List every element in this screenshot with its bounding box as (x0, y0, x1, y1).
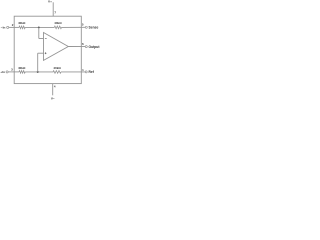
Output label (89, 45, 101, 49)
svg-text:V−: V− (51, 97, 55, 100)
svg-text:40kΩ: 40kΩ (18, 21, 26, 25)
R2 value 40kOhm (54, 21, 62, 25)
svg-text:Ref: Ref (89, 70, 95, 74)
resistor R1 zigzag (19, 26, 25, 29)
V- label (51, 97, 55, 101)
R3 value 40kOhm (18, 66, 26, 70)
R1 value 40kOhm (18, 21, 26, 25)
wire -In circle to resistor R1 (9, 26, 19, 28)
node A junction dot (38, 26, 40, 28)
wire R4 to Ref terminal (61, 71, 85, 73)
R4 value 40kOhm (53, 66, 61, 70)
wire R2 to Sense terminal (62, 26, 86, 28)
-In terminal label (1, 26, 6, 30)
-In terminal circle (7, 26, 9, 28)
node B junction dot (37, 71, 39, 73)
resistor R2 feedback zigzag (54, 26, 61, 29)
pin number 4 (54, 85, 56, 89)
Sense label (89, 25, 99, 29)
svg-text:Sense: Sense (89, 25, 99, 29)
pin number 1 (82, 68, 84, 72)
wire R3 to resistor R4 (25, 71, 53, 73)
Ref label (89, 70, 95, 74)
IC outline box (14, 16, 81, 83)
+In terminal label (0, 70, 5, 74)
svg-text:−In: −In (1, 26, 6, 30)
wire +In circle to resistor R3 (8, 71, 19, 73)
Output terminal circle (85, 46, 87, 48)
svg-text:5: 5 (82, 22, 84, 26)
op-amp minus input sign (45, 38, 47, 40)
svg-text:40kΩ: 40kΩ (18, 66, 26, 70)
resistor R3 zigzag (19, 71, 25, 74)
svg-text:3: 3 (11, 68, 13, 72)
svg-text:+In: +In (0, 70, 5, 74)
V- supply stub (pin 4) (52, 84, 54, 96)
svg-text:7: 7 (54, 11, 56, 15)
svg-text:40kΩ: 40kΩ (54, 21, 62, 25)
Ref terminal circle (85, 71, 87, 73)
op-amp plus input sign (45, 52, 47, 54)
svg-text:40kΩ: 40kΩ (53, 66, 61, 70)
V+ label (48, 0, 52, 3)
pin number 2 (12, 23, 14, 27)
svg-text:Output: Output (89, 45, 101, 49)
svg-text:6: 6 (82, 42, 84, 46)
pin number 5 (82, 22, 84, 26)
wire R1 to feedback resistor R2 (25, 26, 54, 28)
svg-text:4: 4 (54, 85, 56, 89)
wire to op-amp non-inverting input (38, 52, 44, 54)
Sense terminal circle (85, 26, 87, 28)
pin number 6 (82, 42, 84, 46)
pin number 3 (11, 68, 13, 72)
wire node B up to non-inverting input (37, 53, 39, 72)
svg-text:V+: V+ (48, 0, 52, 3)
op-amp U1 triangle (44, 33, 69, 61)
pin number 7 (54, 11, 56, 15)
resistor R4 zigzag (53, 71, 61, 74)
+In terminal circle (6, 71, 8, 73)
V+ supply stub (pin 7) (52, 2, 54, 16)
wire op-amp output to Output terminal (68, 46, 85, 48)
wire to op-amp inverting input (39, 38, 44, 40)
wire node A down to inverting input (38, 27, 40, 38)
svg-text:2: 2 (12, 23, 14, 27)
